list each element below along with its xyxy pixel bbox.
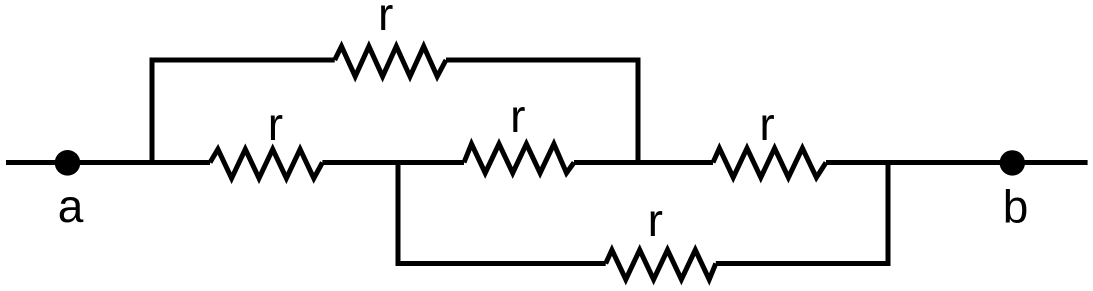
svg-text:a: a xyxy=(58,180,84,232)
wire main segment between r1 and r2 xyxy=(322,160,464,165)
wire bottom branch right horizontal and right vertical xyxy=(716,163,888,264)
wire top branch left vertical and top left horizontal xyxy=(152,60,335,163)
svg-text:r: r xyxy=(648,194,663,246)
svg-text:r: r xyxy=(378,0,393,40)
wire bottom branch left vertical and bottom left horizontal xyxy=(398,163,606,264)
svg-text:r: r xyxy=(759,98,774,150)
wire top branch right horizontal and right vertical xyxy=(446,60,638,163)
resistor r bottom xyxy=(606,250,716,280)
wire main segment left (a lead) xyxy=(6,160,210,165)
resistor r2 (center middle) xyxy=(464,144,574,173)
svg-text:r: r xyxy=(510,90,525,142)
wire main segment between r2 and r3 xyxy=(574,160,713,165)
svg-text:r: r xyxy=(268,98,283,150)
svg-text:b: b xyxy=(1003,180,1029,232)
node a (terminal dot) xyxy=(55,150,81,176)
resistor r1 (left middle) xyxy=(210,149,322,178)
node b (terminal dot) xyxy=(1000,150,1025,175)
wire main segment right (b lead) xyxy=(826,160,1088,165)
resistor r3 (right middle) xyxy=(713,148,826,177)
resistor r top xyxy=(335,46,446,76)
